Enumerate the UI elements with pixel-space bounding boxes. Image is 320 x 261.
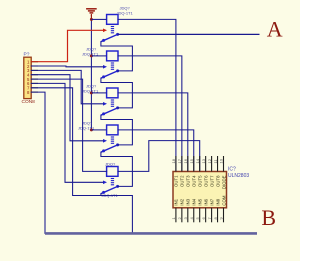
- pin 5 of U1: [199, 208, 201, 223]
- svg-text:OUT7: OUT7: [209, 175, 214, 187]
- svg-text:IN1: IN1: [174, 198, 179, 205]
- pin 12 of U1: [211, 156, 213, 172]
- wire P1.7 to K5 pivot net: [31, 88, 101, 196]
- relay K5 switch contact dot: [116, 185, 119, 188]
- relay K3 actuator stem: [111, 100, 114, 106]
- pin 17 of U1: [181, 156, 183, 172]
- relay K4 switch contact dot: [116, 143, 119, 146]
- svg-text:16: 16: [183, 158, 188, 163]
- relay K2 coil arrow: [103, 65, 107, 69]
- relay K2 switch contact dot: [116, 69, 119, 72]
- svg-text:18: 18: [171, 158, 176, 163]
- pin 1 of U1: [175, 208, 177, 223]
- svg-text:15: 15: [189, 158, 194, 163]
- wire P1.8 to net B: [31, 92, 45, 233]
- relay K4 switch arm: [101, 145, 118, 152]
- pin 14 of U1: [199, 156, 201, 172]
- relay K5 switch arm: [101, 186, 118, 193]
- relay K1 actuator stem: [111, 27, 114, 33]
- junction rail-coil1: [90, 18, 93, 21]
- svg-text:P?: P?: [24, 52, 30, 58]
- svg-text:13: 13: [201, 158, 206, 163]
- junction rail-coil4: [90, 128, 93, 131]
- wire P1.1 red to K1 arrow: [31, 30, 103, 61]
- relay K4 actuator stem: [111, 137, 114, 143]
- relay K2 coil box: [107, 51, 118, 61]
- relay K2 switch arm: [101, 71, 118, 78]
- wire rail to K1 coil: [91, 18, 106, 20]
- svg-text:IN6: IN6: [203, 198, 208, 205]
- pin 6 of P1: [31, 82, 38, 84]
- pin 4 of U1: [193, 208, 195, 223]
- relay K5 actuator stem: [111, 179, 114, 185]
- wire K2 pivot to K3 contact: [101, 78, 132, 108]
- relay K3 pivot dot: [102, 112, 105, 115]
- wire P1.5 to K5 coil: [31, 79, 106, 171]
- svg-text:OUT5: OUT5: [198, 175, 203, 187]
- relay K1 coil arrow: [103, 29, 107, 33]
- relay K1 pivot dot: [102, 39, 105, 42]
- wire K3 pivot to K4 contact: [101, 115, 132, 145]
- svg-text:OUT2: OUT2: [180, 175, 185, 187]
- relay K4 coil box: [107, 125, 118, 135]
- svg-text:IN4: IN4: [192, 198, 197, 205]
- junction rail-coil3: [90, 91, 93, 94]
- wire K3 coil to U1 pin 16: [118, 93, 188, 172]
- svg-text:OUT6: OUT6: [203, 175, 208, 187]
- relay K3 coil box: [107, 88, 118, 98]
- pin 5 of P1: [31, 78, 38, 80]
- relay K4 pivot dot: [102, 149, 105, 152]
- pin 6 of U1: [205, 208, 207, 223]
- pin 18 of U1: [175, 156, 177, 172]
- svg-text:IN7: IN7: [209, 198, 214, 205]
- wire P1.3 to K3 arrow: [31, 70, 103, 103]
- wire rail to K2 coil: [91, 55, 106, 57]
- relay K3 switch contact dot: [116, 106, 119, 109]
- pin 15 of U1: [193, 156, 195, 172]
- svg-text:12: 12: [207, 158, 212, 163]
- connector P1 CON8: [24, 57, 31, 98]
- pin 13 of U1: [205, 156, 207, 172]
- wire K4 pivot to K5 contact: [101, 152, 132, 186]
- pin 2 of U1: [181, 208, 183, 223]
- relay K5 pivot dot: [102, 191, 105, 194]
- pin 10 of U1: [223, 156, 225, 172]
- wire rail to K3 coil: [91, 92, 106, 94]
- wire P1.2 to K2 arrow: [31, 65, 103, 68]
- svg-text:OUT3: OUT3: [186, 175, 191, 187]
- pin 4 of P1: [31, 74, 38, 76]
- relay K1 switch contact dot: [116, 33, 119, 36]
- wire P1.4 to K4 arrow: [31, 75, 103, 141]
- svg-text:17: 17: [177, 158, 182, 163]
- svg-text:DIODE: DIODE: [221, 175, 226, 189]
- relay K2 actuator stem: [111, 63, 114, 69]
- svg-text:10: 10: [219, 158, 224, 163]
- svg-text:OUT8: OUT8: [215, 175, 220, 187]
- svg-text:IN2: IN2: [180, 198, 185, 205]
- net B bus line: [45, 232, 257, 235]
- pin 9 of U1: [223, 208, 225, 223]
- pin 8 of U1: [217, 208, 219, 223]
- pin 16 of U1: [187, 156, 189, 172]
- ground: [86, 9, 97, 20]
- svg-text:A: A: [267, 16, 283, 41]
- junction rail-coil2: [90, 54, 93, 57]
- relay K3 switch arm: [101, 108, 118, 115]
- pin 3 of P1: [31, 69, 38, 71]
- relay K5 coil arrow: [103, 181, 107, 185]
- relay K5 coil box: [107, 167, 118, 177]
- wire P1.6 to K5 arrow: [31, 83, 103, 182]
- svg-text:ULN2803: ULN2803: [228, 173, 249, 179]
- wire K5 pivot to net B: [101, 194, 132, 234]
- wire K1 pivot to K2 contact: [101, 42, 132, 71]
- pin 7 of U1: [211, 208, 213, 223]
- pin 11 of U1: [217, 156, 219, 172]
- svg-text:B: B: [261, 205, 276, 230]
- wire K5 coil to U1 pin 14: [118, 141, 200, 172]
- IC U1 ULN2803 body: [173, 172, 227, 208]
- svg-text:IN5: IN5: [198, 198, 203, 205]
- pin 2 of P1: [31, 65, 38, 67]
- svg-text:IC?: IC?: [228, 167, 236, 173]
- wire rail to K4 coil: [91, 129, 106, 131]
- svg-text:14: 14: [195, 158, 200, 163]
- pin 1 of P1: [31, 61, 38, 63]
- svg-text:IN8: IN8: [215, 198, 220, 205]
- relay K1 switch arm: [101, 34, 118, 41]
- pin 8 of P1: [31, 91, 38, 93]
- relay K3 coil arrow: [103, 102, 107, 106]
- relay K1 coil box: [107, 15, 118, 25]
- wire net A from K1 contact: [118, 33, 260, 35]
- svg-text:OUT1: OUT1: [174, 175, 179, 187]
- relay K2 pivot dot: [102, 75, 105, 78]
- wire K2 coil to U1 pin 17: [118, 56, 182, 172]
- wire ground rail: [90, 18, 92, 130]
- pin 7 of P1: [31, 87, 38, 89]
- relay K4 coil arrow: [103, 139, 107, 143]
- svg-text:COM: COM: [221, 195, 226, 205]
- pin 3 of U1: [187, 208, 189, 223]
- wire K4 coil to U1 pin 15: [118, 130, 194, 172]
- wire K1 coil to U1 pin 18: [118, 19, 176, 171]
- svg-text:IN3: IN3: [186, 198, 191, 205]
- svg-text:CON8: CON8: [22, 99, 36, 105]
- svg-text:JDQ-1T1: JDQ-1T1: [117, 10, 134, 15]
- svg-text:OUT4: OUT4: [192, 175, 197, 187]
- svg-text:JDQ?: JDQ?: [105, 161, 116, 166]
